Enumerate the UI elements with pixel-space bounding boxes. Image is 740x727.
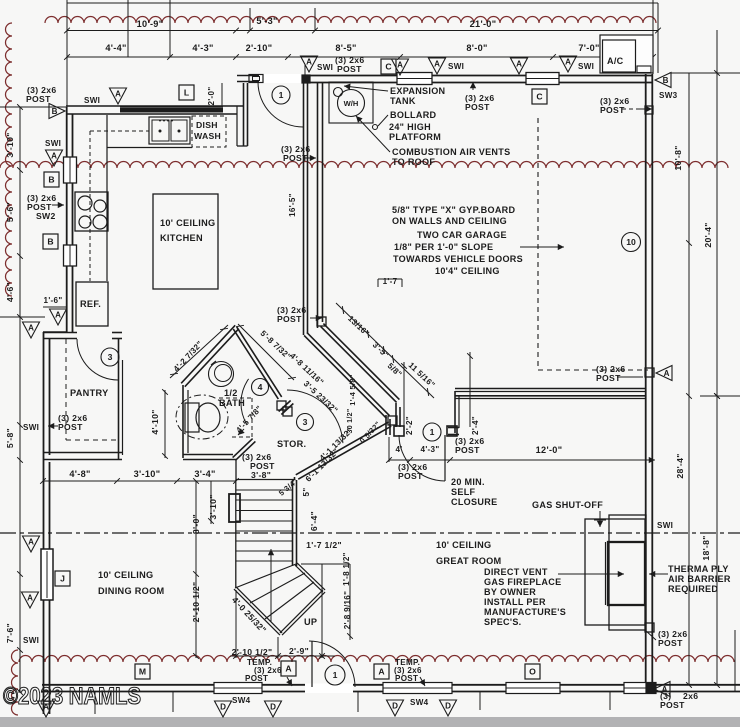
garage north window 2 xyxy=(526,73,559,85)
fireplace chase xyxy=(609,515,646,630)
ac inner box xyxy=(603,40,636,72)
svg-text:C: C xyxy=(536,92,542,102)
svg-text:SWI: SWI xyxy=(23,636,39,645)
entry door swing arc xyxy=(258,82,303,127)
dishwasher dashed box xyxy=(192,116,226,147)
ext line x658 xyxy=(657,3,659,73)
triangle A bottom right xyxy=(654,682,670,697)
dim line second row xyxy=(67,56,653,58)
bottom wall south line xyxy=(42,684,740,686)
fireplace outer box xyxy=(585,519,645,625)
right y396 tick xyxy=(700,395,740,397)
stairs left wall xyxy=(235,480,237,588)
stairs bottom dim line xyxy=(230,655,335,657)
svg-text:28'-4": 28'-4" xyxy=(675,453,685,478)
svg-text:REF.: REF. xyxy=(80,299,101,309)
svg-text:1/2: 1/2 xyxy=(224,388,238,398)
svg-text:1'-7: 1'-7 xyxy=(383,277,398,286)
svg-text:B: B xyxy=(48,175,54,185)
fireplace firebox left edge xyxy=(605,542,607,605)
pantry circle 3 xyxy=(101,348,119,366)
svg-text:POST: POST xyxy=(658,638,683,648)
svg-text:SW4: SW4 xyxy=(410,698,429,707)
svg-text:4'-4": 4'-4" xyxy=(105,43,126,53)
svg-text:21'-0": 21'-0" xyxy=(470,19,497,29)
triangle D 4 xyxy=(440,700,457,716)
svg-text:2'-10": 2'-10" xyxy=(246,43,273,53)
svg-text:3: 3 xyxy=(108,352,113,362)
stove xyxy=(75,192,108,231)
counter front edge vertical xyxy=(106,115,108,281)
svg-text:GREAT ROOM: GREAT ROOM xyxy=(436,556,502,566)
fireplace bottom post xyxy=(645,623,654,632)
great room north wall xyxy=(455,388,646,390)
svg-text:1/8" PER 1'-0" SLOPE: 1/8" PER 1'-0" SLOPE xyxy=(394,242,493,252)
upper cabinet dashed xyxy=(90,130,149,132)
triangle A swi mid xyxy=(429,58,446,74)
triangle D 3 xyxy=(387,700,404,716)
triangle A bottom left xyxy=(38,701,55,717)
svg-text:20 MIN.: 20 MIN. xyxy=(451,477,485,487)
ac outer box xyxy=(600,35,653,73)
svg-text:5": 5" xyxy=(302,488,311,497)
stor S corner xyxy=(294,477,296,480)
svg-text:BATH: BATH xyxy=(219,398,245,408)
svg-text:COMBUSTION AIR VENTS: COMBUSTION AIR VENTS xyxy=(392,147,510,157)
bottom wall window 2 xyxy=(383,683,452,694)
ext line x128 xyxy=(127,0,129,57)
pantry bottom wall xyxy=(43,452,122,454)
svg-text:O: O xyxy=(529,667,536,677)
pantry door swing arc xyxy=(77,339,118,380)
svg-text:EXPANSION: EXPANSION xyxy=(390,86,445,96)
pantry shelf dashed xyxy=(65,339,67,440)
svg-text:B: B xyxy=(52,107,58,116)
svg-text:PLATFORM: PLATFORM xyxy=(389,132,441,142)
svg-text:CLOSURE: CLOSURE xyxy=(451,497,497,507)
svg-text:B: B xyxy=(47,237,53,247)
pantry top wall xyxy=(43,332,77,334)
svg-text:SWI: SWI xyxy=(317,63,333,72)
stairs winder NE stringer xyxy=(295,565,323,592)
refrigerator xyxy=(76,282,108,326)
svg-text:30 1/2": 30 1/2" xyxy=(347,409,354,434)
stor door swing arc xyxy=(287,390,343,443)
svg-text:A: A xyxy=(565,58,571,67)
garage door wall stub xyxy=(448,427,459,429)
svg-text:A: A xyxy=(434,60,440,69)
svg-text:2x6: 2x6 xyxy=(683,691,698,701)
stairs dim line right xyxy=(301,563,350,565)
svg-text:24" HIGH: 24" HIGH xyxy=(389,122,431,132)
svg-text:A: A xyxy=(28,538,34,547)
svg-text:10' CEILING: 10' CEILING xyxy=(436,540,491,550)
bottom wall stub lines xyxy=(172,692,174,712)
svg-text:7'-6": 7'-6" xyxy=(5,623,15,643)
svg-text:TOWARDS VEHICLE DOORS: TOWARDS VEHICLE DOORS xyxy=(393,254,523,264)
svg-text:SPEC'S.: SPEC'S. xyxy=(484,617,522,627)
dim line 10'-9"/5'-3"/21'-0" xyxy=(67,30,658,32)
garage east wall xyxy=(645,74,647,685)
insulation scallop left vertical xyxy=(6,23,12,296)
ext line x315 xyxy=(314,8,316,31)
svg-text:STOR.: STOR. xyxy=(277,439,306,449)
svg-text:SWI: SWI xyxy=(578,62,594,71)
left dim line xyxy=(19,107,21,692)
svg-text:INSTALL PER: INSTALL PER xyxy=(484,597,546,607)
ac small rect xyxy=(637,66,651,73)
svg-text:A/C: A/C xyxy=(607,56,624,66)
bath toilet xyxy=(176,395,228,439)
garage north wall xyxy=(305,75,653,77)
svg-text:TWO CAR GARAGE: TWO CAR GARAGE xyxy=(417,230,507,240)
insulation scallop bottom xyxy=(19,656,734,662)
stairs left wall block xyxy=(229,494,240,522)
garage gyp dashed line vertical xyxy=(537,118,539,370)
svg-text:4: 4 xyxy=(258,382,263,392)
bollard circle xyxy=(373,125,378,130)
svg-text:L: L xyxy=(184,88,189,98)
bath sink xyxy=(209,362,234,387)
insulation scallop middle xyxy=(0,162,728,168)
svg-text:D: D xyxy=(392,702,398,711)
bath NE wall xyxy=(233,329,278,399)
svg-text:M: M xyxy=(139,667,146,677)
insulation scallop top xyxy=(45,17,656,24)
J box xyxy=(55,571,70,586)
wh circle xyxy=(338,90,365,117)
svg-text:12'-0": 12'-0" xyxy=(536,445,563,455)
svg-text:3'-10": 3'-10" xyxy=(134,469,161,479)
svg-text:2'-8 9/16": 2'-8 9/16" xyxy=(343,591,352,629)
hall west diagonal wall xyxy=(304,335,387,418)
svg-text:©2023 NAMLS: ©2023 NAMLS xyxy=(3,683,141,710)
svg-text:3'-4": 3'-4" xyxy=(194,469,215,479)
svg-text:8'-0": 8'-0" xyxy=(466,43,487,53)
svg-text:5'-6": 5'-6" xyxy=(5,202,15,222)
door number circle 1 entry xyxy=(272,86,290,104)
triangle B right + sw3 xyxy=(655,73,671,88)
gas shutoff tick xyxy=(594,519,606,521)
svg-text:POST: POST xyxy=(465,102,490,112)
svg-text:POST: POST xyxy=(26,94,51,104)
svg-text:AIR BARRIER: AIR BARRIER xyxy=(668,574,731,584)
bottom door leaf xyxy=(311,641,313,687)
svg-text:KITCHEN: KITCHEN xyxy=(160,233,203,243)
entry door opening xyxy=(259,74,305,83)
svg-text:10'-9": 10'-9" xyxy=(137,19,164,29)
svg-text:10: 10 xyxy=(626,237,636,247)
svg-text:POST: POST xyxy=(600,105,625,115)
bottom wall window 1 xyxy=(214,683,262,694)
svg-text:20'-4": 20'-4" xyxy=(703,222,713,247)
triangle A top right2 xyxy=(560,56,577,72)
garage circle 10 xyxy=(622,233,641,252)
stairs top edge xyxy=(236,479,294,481)
triangle B kitchen west xyxy=(49,104,65,119)
svg-text:GAS SHUT-OFF: GAS SHUT-OFF xyxy=(532,500,603,510)
svg-text:5'-3": 5'-3" xyxy=(256,16,277,26)
svg-text:16'-5": 16'-5" xyxy=(288,193,297,217)
L box xyxy=(179,85,194,100)
ext line x653 top xyxy=(652,0,654,74)
kitchen sink xyxy=(149,117,190,144)
bottom right wall post xyxy=(646,684,655,693)
svg-text:J: J xyxy=(60,574,65,584)
bath dim line NW xyxy=(170,325,228,378)
svg-text:SWI: SWI xyxy=(23,423,39,432)
svg-text:1'-4 5/8": 1'-4 5/8" xyxy=(348,374,357,406)
svg-text:10'4" CEILING: 10'4" CEILING xyxy=(435,266,500,276)
svg-text:D: D xyxy=(445,702,451,711)
entry north wall xyxy=(237,75,259,77)
svg-text:1'-7 1/2": 1'-7 1/2" xyxy=(306,540,342,550)
svg-text:POST: POST xyxy=(596,373,621,383)
svg-text:SWI: SWI xyxy=(657,521,673,530)
svg-text:6'-4": 6'-4" xyxy=(309,511,319,531)
bath circle 4 xyxy=(252,379,269,396)
svg-text:GAS FIREPLACE: GAS FIREPLACE xyxy=(484,577,561,587)
garage door jamb posts xyxy=(394,426,404,436)
svg-text:D: D xyxy=(220,703,226,712)
right dim line x717 xyxy=(716,30,718,685)
svg-text:WASH: WASH xyxy=(194,131,221,141)
svg-text:A: A xyxy=(27,594,33,603)
kitchen west wall lower xyxy=(66,266,68,332)
svg-text:POST: POST xyxy=(277,314,302,324)
dim 2'-0" entry xyxy=(221,83,223,106)
counter front edge horizontal xyxy=(107,147,192,149)
svg-text:SW2: SW2 xyxy=(36,211,56,221)
svg-text:D: D xyxy=(270,703,276,712)
ext line x170 xyxy=(169,0,171,57)
stairs winder SW stringer xyxy=(234,589,280,635)
bottom door arc xyxy=(309,641,355,687)
garage east post xyxy=(645,368,654,377)
garage north window 1 xyxy=(397,73,432,85)
section line y317 left xyxy=(0,316,45,318)
svg-text:C: C xyxy=(385,62,391,72)
insulation scallop bottom-left vertical xyxy=(12,650,19,715)
svg-text:5'-8": 5'-8" xyxy=(5,428,15,448)
triangle D 2 xyxy=(265,701,282,717)
garage SE triangle A xyxy=(656,366,672,381)
garage door swing arc xyxy=(399,435,445,481)
svg-text:A: A xyxy=(285,664,291,674)
svg-text:A: A xyxy=(115,90,121,99)
svg-text:SW3: SW3 xyxy=(659,91,678,100)
O box xyxy=(525,664,540,679)
kitchen west wall mid xyxy=(66,183,68,245)
C box mid xyxy=(532,89,547,104)
right dim line x689 xyxy=(688,73,690,685)
triangle A top right1 xyxy=(511,58,528,74)
svg-text:POST: POST xyxy=(398,471,423,481)
svg-text:POST: POST xyxy=(660,700,685,710)
kitchen west window 2 xyxy=(64,245,77,266)
svg-text:POST: POST xyxy=(337,64,362,74)
svg-text:SWI: SWI xyxy=(448,62,464,71)
entry-kitchen joint wall xyxy=(243,83,245,146)
hall bottom-left vert lines xyxy=(94,692,96,714)
svg-text:2'-10 1/2": 2'-10 1/2" xyxy=(232,647,273,657)
hall dim bracket2 xyxy=(377,279,379,287)
svg-text:2'-2": 2'-2" xyxy=(405,416,414,435)
hall west wall xyxy=(303,83,305,335)
stairs dim line left xyxy=(195,481,197,658)
garage door circle 1 xyxy=(423,423,441,441)
svg-text:DINING ROOM: DINING ROOM xyxy=(98,586,165,596)
svg-text:A: A xyxy=(516,60,522,69)
svg-text:ON WALLS AND CEILING: ON WALLS AND CEILING xyxy=(392,216,507,226)
bath west wall xyxy=(182,385,184,458)
fireplace arrow left xyxy=(558,573,624,575)
bath SE wall lower xyxy=(235,441,255,460)
bath south wall xyxy=(183,454,233,456)
svg-text:POST: POST xyxy=(455,445,480,455)
stor SE wall xyxy=(298,426,391,479)
garage door dim 2'-4" xyxy=(469,352,471,427)
hall east wall xyxy=(317,83,319,328)
svg-text:4'-3": 4'-3" xyxy=(421,445,440,454)
svg-text:10' CEILING: 10' CEILING xyxy=(160,218,215,228)
stairs winder SE edge xyxy=(282,592,325,635)
svg-text:1'-6": 1'-6" xyxy=(44,296,63,305)
stairs winder tread 2 xyxy=(265,582,314,619)
kitchen west window 1 xyxy=(64,157,77,183)
hall dim line 1 xyxy=(336,303,434,398)
svg-text:1: 1 xyxy=(333,670,338,680)
svg-text:2'-9": 2'-9" xyxy=(289,646,309,656)
svg-text:2'-0": 2'-0" xyxy=(207,87,216,106)
svg-text:A: A xyxy=(664,369,670,378)
B box 2 xyxy=(43,234,58,249)
section line y107 left xyxy=(0,106,66,108)
triangle A left y317 xyxy=(50,309,67,325)
counter band top edge xyxy=(120,106,223,108)
wh platform xyxy=(329,82,373,123)
svg-text:POST: POST xyxy=(58,422,83,432)
svg-text:10' CEILING: 10' CEILING xyxy=(98,570,153,580)
hall east corner post xyxy=(317,317,326,326)
svg-text:A: A xyxy=(306,58,312,67)
garage door dim line xyxy=(389,459,655,461)
svg-text:1: 1 xyxy=(430,427,435,437)
expansion tank circle xyxy=(334,88,343,97)
M box xyxy=(135,664,150,679)
kitchen island box xyxy=(153,194,218,289)
C box top 1 xyxy=(381,59,396,74)
svg-text:DIRECT VENT: DIRECT VENT xyxy=(484,567,548,577)
dining dim line xyxy=(43,480,236,482)
svg-text:SWI: SWI xyxy=(45,139,61,148)
triangle A top c xyxy=(392,59,409,75)
svg-text:3'-10": 3'-10" xyxy=(5,132,15,157)
bottom gray bar xyxy=(0,717,740,727)
ext line x250 xyxy=(249,8,251,31)
A box bottom mid xyxy=(374,664,389,679)
triangle A + swi entry xyxy=(301,56,318,72)
right dim line x735 xyxy=(734,630,736,692)
pantry west wall xyxy=(43,332,45,462)
svg-text:A: A xyxy=(28,324,34,333)
svg-text:5/8" TYPE "X" GYP.BOARD: 5/8" TYPE "X" GYP.BOARD xyxy=(392,205,516,215)
stairs winder tread 1 xyxy=(250,573,305,603)
ext line left x67 xyxy=(66,0,68,107)
svg-text:10'-8": 10'-8" xyxy=(673,145,683,170)
svg-text:MANUFACTURE'S: MANUFACTURE'S xyxy=(484,607,566,617)
stor NW wall jamb post xyxy=(277,401,286,410)
dining west wall xyxy=(43,462,45,714)
svg-text:A: A xyxy=(55,311,61,320)
garage slope arrow xyxy=(520,246,564,248)
svg-text:W/H: W/H xyxy=(344,99,359,108)
svg-text:SELF: SELF xyxy=(451,487,476,497)
bottom wall window 3 xyxy=(506,683,560,694)
svg-text:3'-10": 3'-10" xyxy=(208,494,218,519)
svg-text:2'-4": 2'-4" xyxy=(471,416,480,435)
svg-text:4'-10": 4'-10" xyxy=(150,409,160,434)
svg-text:SWI: SWI xyxy=(84,96,100,105)
svg-text:A: A xyxy=(378,667,384,677)
bath NE dim line xyxy=(238,324,294,380)
svg-text:BY OWNER: BY OWNER xyxy=(484,587,536,597)
section cut line xyxy=(0,532,740,534)
svg-text:7'-0": 7'-0" xyxy=(578,43,599,53)
svg-text:DISH: DISH xyxy=(196,120,218,130)
svg-text:REQUIRED: REQUIRED xyxy=(668,584,718,594)
bath NW wall xyxy=(181,325,235,383)
top boundary line xyxy=(67,2,658,4)
svg-text:4': 4' xyxy=(395,445,402,454)
svg-text:8'-5": 8'-5" xyxy=(335,43,356,53)
svg-text:4'-6": 4'-6" xyxy=(5,282,15,302)
right top line xyxy=(669,72,740,74)
stor east post xyxy=(388,416,397,425)
dining west window xyxy=(41,549,53,600)
svg-text:1: 1 xyxy=(279,90,284,100)
svg-text:UP: UP xyxy=(304,617,317,627)
hall east diagonal wall xyxy=(321,326,397,402)
dim 4'-10" vertical xyxy=(164,390,166,458)
svg-text:3'-8": 3'-8" xyxy=(251,470,271,480)
fireplace firebox xyxy=(608,542,645,605)
svg-text:PANTRY: PANTRY xyxy=(70,388,109,398)
triangle A kitchen north xyxy=(110,88,127,104)
stairs right wall xyxy=(292,480,294,566)
west wall jog xyxy=(43,331,67,333)
triangle A dining 2 xyxy=(22,592,39,608)
svg-text:3: 3 xyxy=(303,417,308,427)
garage gyp dashed line horizontal xyxy=(538,369,648,371)
svg-text:THERMA PLY: THERMA PLY xyxy=(668,564,729,574)
svg-text:POST: POST xyxy=(395,674,418,683)
stairs up arrow xyxy=(270,549,272,622)
fireplace arrow right xyxy=(649,573,668,575)
svg-text:BOLLARD: BOLLARD xyxy=(390,110,437,120)
svg-text:18'-8": 18'-8" xyxy=(701,535,711,560)
bath SE wall upper xyxy=(281,403,293,414)
kitchen north wall xyxy=(66,105,243,107)
stor circle 3 xyxy=(297,414,314,431)
triangle D 1 xyxy=(215,701,232,717)
kitchen west wall upper xyxy=(66,107,68,160)
post square right top xyxy=(645,106,653,114)
pantry east wall xyxy=(118,339,120,460)
B box 1 xyxy=(44,172,59,187)
stairs treads xyxy=(236,489,292,491)
svg-text:A: A xyxy=(397,61,403,70)
